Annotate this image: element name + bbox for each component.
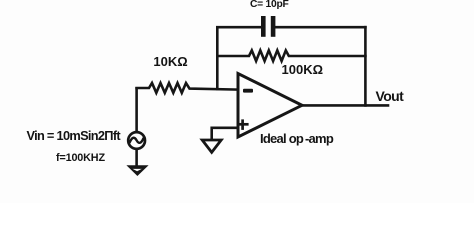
svg-text:C= 10pF: C= 10pF (250, 0, 289, 10)
op-amp inverting input minus sign (243, 89, 253, 93)
ground notch (133, 169, 142, 171)
svg-text:Ideal op -amp: Ideal op -amp (260, 131, 334, 146)
op-amp U1 triangle (238, 74, 302, 138)
svg-text:10KΩ: 10KΩ (153, 54, 187, 69)
wire source stem top (135, 88, 138, 131)
wire op-amp non-inverting input (212, 128, 238, 140)
wire right vertical of feedback loop (364, 27, 367, 105)
svg-text:f=100KHZ: f=100KHZ (56, 152, 105, 164)
resistor R2 100KΩ feedback (217, 50, 365, 61)
wire top feedback run left of capacitor (217, 27, 261, 89)
svg-text:100KΩ: 100KΩ (282, 62, 324, 77)
resistor R1 10KΩ input + input wire (137, 83, 238, 93)
op-amp non-inverting input plus sign (237, 119, 249, 129)
wire source stem bottom (135, 149, 138, 166)
AC source V1 (128, 132, 145, 149)
capacitor C1 left plate (261, 16, 266, 37)
wire output (301, 104, 388, 107)
svg-text:Vin = 10mSin2Πft: Vin = 10mSin2Πft (27, 128, 122, 143)
svg-text:Vout: Vout (376, 88, 405, 104)
wire top feedback run right of capacitor (276, 26, 366, 29)
AC source sine wave (130, 138, 144, 143)
ground at non-inverting input (open triangle) (202, 140, 221, 152)
capacitor C1 right plate (271, 16, 276, 37)
ground below source (filled) (126, 165, 148, 176)
